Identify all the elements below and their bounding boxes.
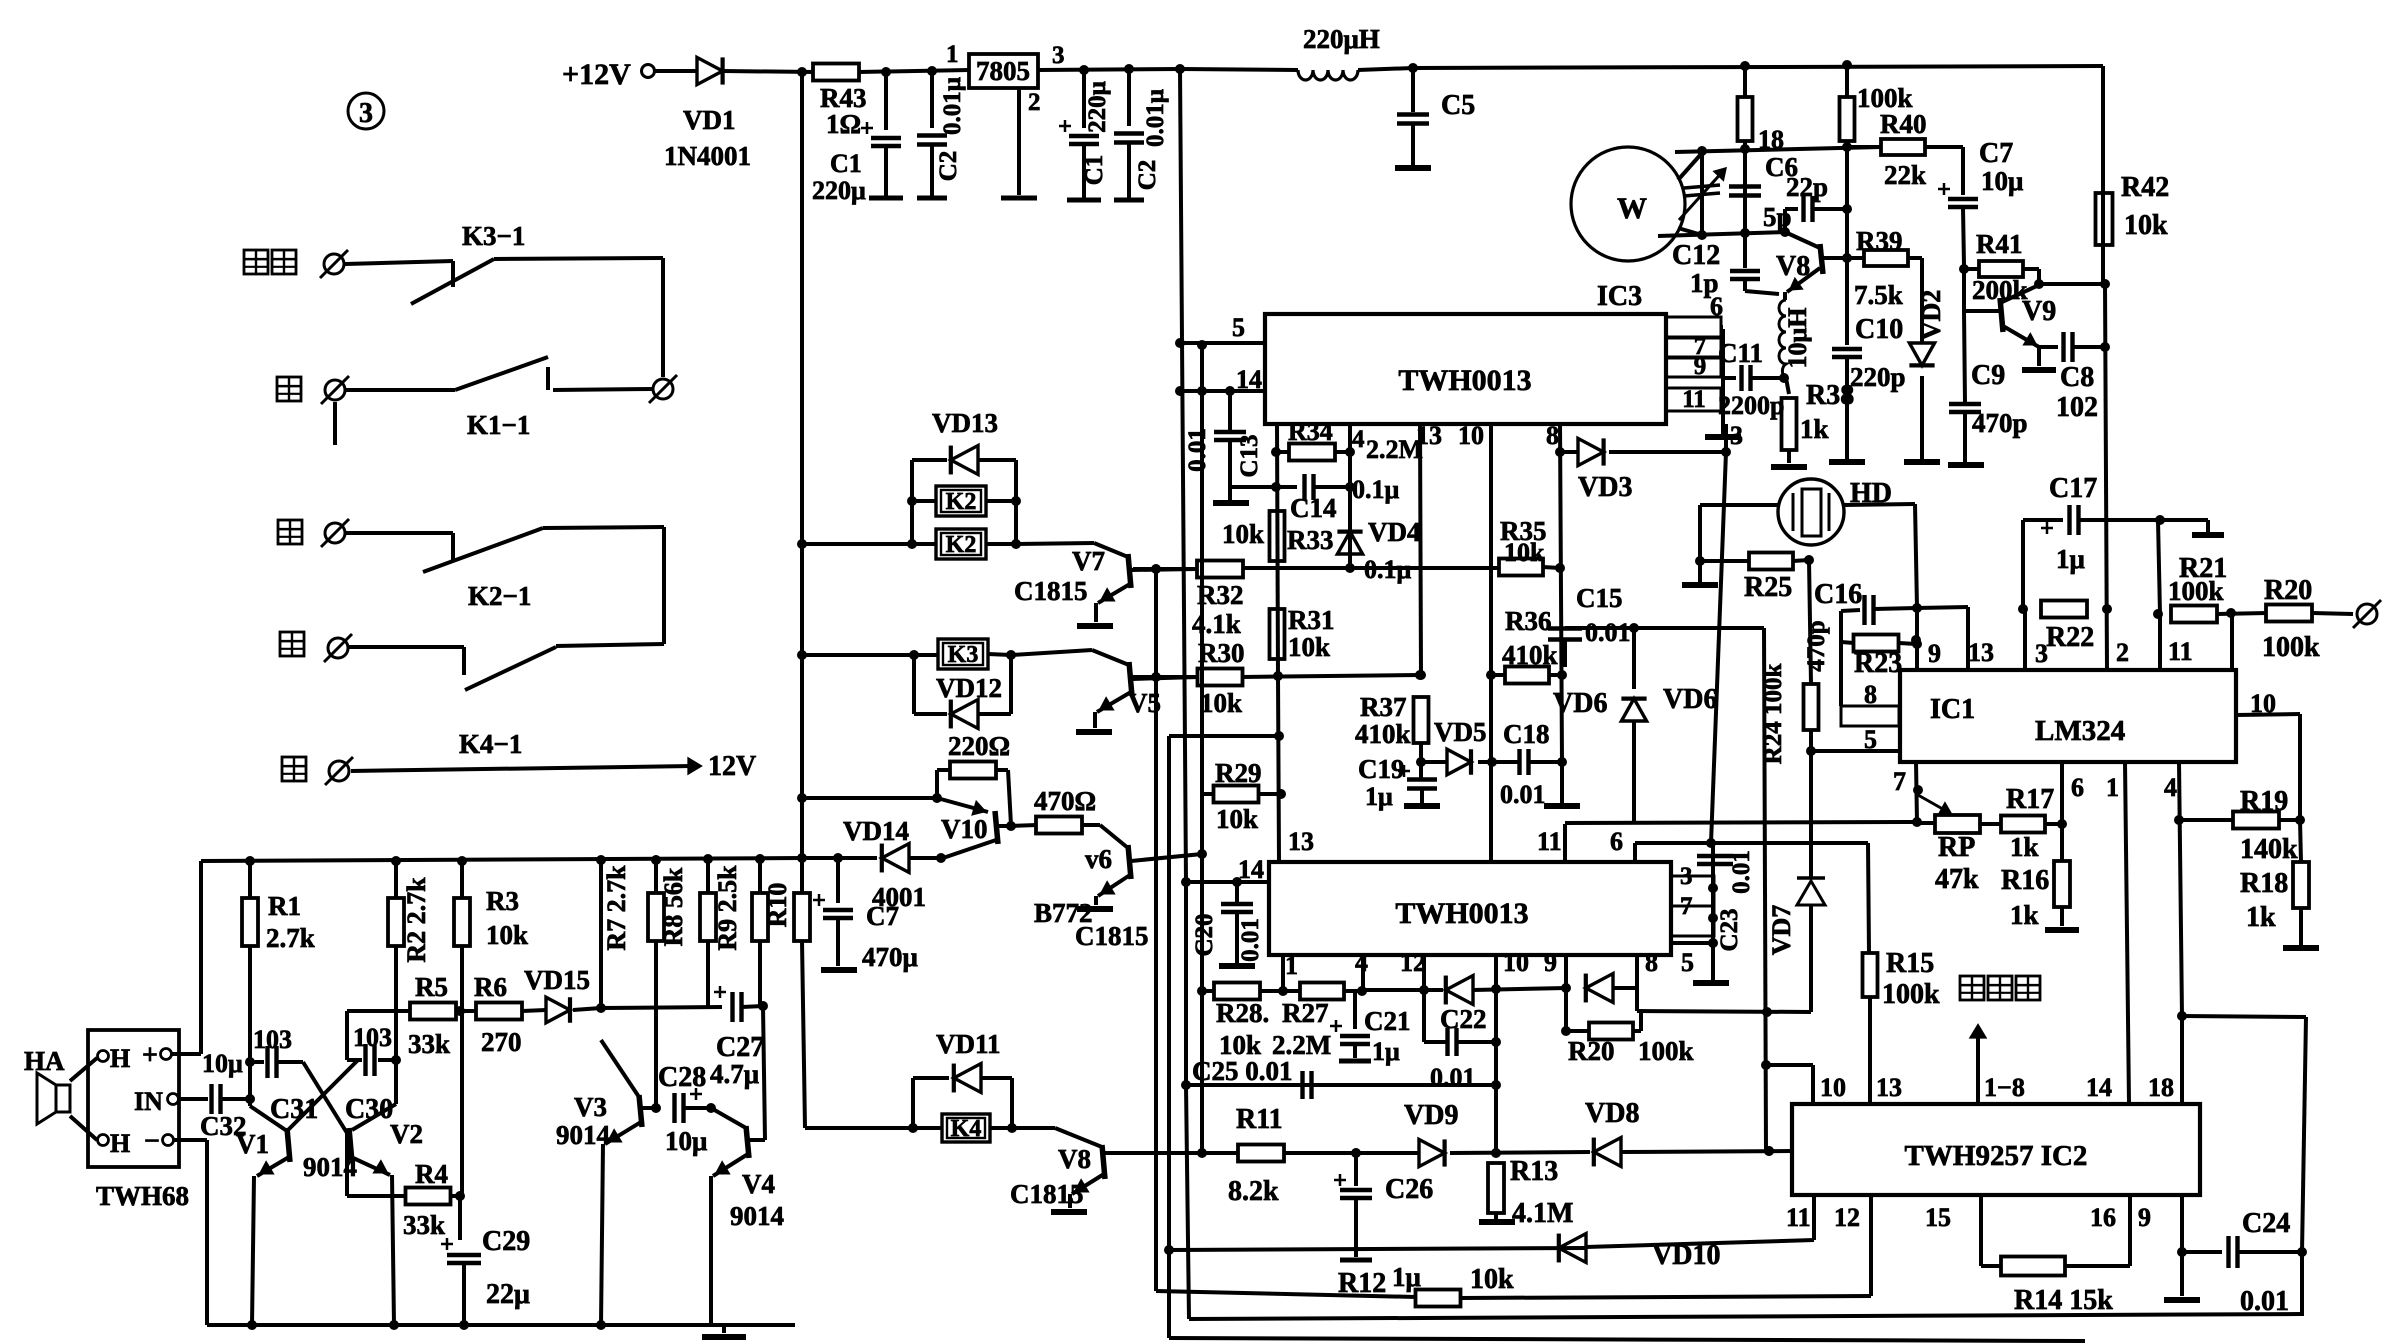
wire R31 column to IC2 pin13 [1278,676,1279,862]
wire v6 base node down [1200,854,1204,991]
svg-text:100k: 100k [2168,576,2224,606]
terminal red [329,761,349,781]
svg-text:R6: R6 [474,972,507,1002]
resistor 470 ohm [1036,817,1082,834]
svg-text:V8: V8 [1776,251,1810,282]
capacitor C20 0.01 [1235,882,1239,902]
resistor R19 140k [2233,812,2279,829]
resistor R16 1k [2060,762,2064,860]
svg-text:8: 8 [1546,421,1559,450]
wire K3-1 output down to black terminal [661,258,665,377]
label pink wire (CJK) [244,250,268,274]
wire C23 column pins 3 7 5 [1711,843,1715,980]
wire K4-1 red to 12V with arrow [351,766,692,771]
svg-text:R2 2.7k: R2 2.7k [402,877,431,963]
svg-text:10μ: 10μ [202,1049,243,1078]
svg-text:4.1M: 4.1M [1512,1198,1573,1229]
svg-text:10k: 10k [2124,210,2168,241]
ground C9 [1948,462,1984,468]
switch K1-1 [346,388,455,392]
resistor R33 10k [1270,511,1285,561]
svg-text:K1−1: K1−1 [467,410,530,440]
pin boxes IC2 3 7 [1671,876,1714,906]
capacitor C26 1u [1354,1153,1358,1186]
svg-text:C29: C29 [482,1226,530,1257]
wire IC2 pin 6 [1633,843,1637,862]
capacitor C14 0.1u [1230,485,1297,489]
svg-text:C21: C21 [1364,1006,1411,1036]
transistor v6 C1815 [1082,823,1100,827]
svg-text:C1815: C1815 [1010,1179,1084,1209]
svg-text:2.7k: 2.7k [266,923,315,953]
svg-text:VD4: VD4 [1368,517,1421,547]
svg-text:2.2M: 2.2M [1366,435,1423,464]
svg-text:3: 3 [1052,42,1065,69]
wire pin8 node to VD7 [1637,1011,1811,1012]
svg-text:33k: 33k [408,1029,450,1059]
svg-text:10k: 10k [1222,519,1264,549]
ground IC3 pins [1705,434,1741,440]
wire R3 column down [460,945,464,1196]
svg-text:10k: 10k [1504,538,1545,567]
capacitor C2 0.01u (output) [1127,69,1131,126]
svg-text:HA: HA [24,1046,65,1076]
svg-text:C25 0.01: C25 0.01 [1192,1056,1293,1086]
svg-text:8.2k: 8.2k [1228,1176,1279,1207]
wire bus to K3 [802,653,938,657]
svg-text:9: 9 [1694,353,1707,380]
svg-text:16: 16 [2090,1203,2116,1232]
svg-text:R17: R17 [2006,784,2054,815]
svg-text:22k: 22k [1884,160,1926,190]
capacitor C29 22u [441,1243,453,1246]
diode VD9 [1419,1139,1445,1166]
wire VD10 to IC2 pin11 [1586,1240,1814,1247]
capacitor C9 470p [1949,402,1981,406]
svg-text:R32: R32 [1197,580,1244,610]
wire IC2 pin 4 riser [1361,955,1365,991]
terminal +12V [642,65,655,78]
svg-text:IC3: IC3 [1597,281,1642,312]
wire oscillator ground rail [207,1323,795,1327]
capacitor C8 102 [2039,345,2058,349]
terminal pink [324,254,344,274]
wire top supply rail to right side [1358,68,1413,70]
wire TWH68 minus to bottom rail [174,1138,207,1142]
wire pin6 down through R15 to TWH9257 pin13 [1868,843,1869,953]
svg-text:13: 13 [1876,1073,1902,1102]
svg-text:C1: C1 [830,149,862,178]
resistor R39 7.5k [1847,256,1864,260]
svg-text:10μ: 10μ [1981,166,2023,196]
diode at IC2 pin 9 [1586,974,1613,1003]
svg-text:6: 6 [1610,827,1623,856]
svg-text:140k: 140k [2240,834,2298,865]
svg-text:C7: C7 [1979,138,2013,169]
wire R11 to VD9 [1284,1151,1419,1155]
svg-text:3: 3 [359,98,373,129]
ground VD2 [1904,459,1940,465]
svg-text:0.01: 0.01 [2240,1286,2289,1317]
svg-text:15: 15 [1925,1203,1951,1232]
svg-text:R10: R10 [763,883,792,928]
svg-text:R23: R23 [1854,648,1902,679]
resistor R36 410k [1505,667,1549,684]
svg-text:12V: 12V [708,751,756,782]
svg-text:8: 8 [1645,948,1658,977]
transistor V8 (rf oscillator) [1820,244,1823,274]
svg-text:1N4001: 1N4001 [664,141,751,171]
figure number 3 circle [348,93,384,129]
svg-text:8: 8 [1864,680,1877,709]
wire TWH9257 pin 18 riser [2180,1016,2184,1104]
diode VD14 4001 [802,856,877,860]
svg-text:V8: V8 [1058,1144,1091,1174]
svg-text:0.01μ: 0.01μ [1142,89,1169,147]
relay coil K4 [942,1114,990,1142]
svg-text:C24: C24 [2242,1208,2290,1239]
diode VD3 [1560,450,1578,454]
resistor R30 10k [1133,675,1198,679]
svg-text:C2: C2 [1134,160,1161,191]
ground C23 [1693,980,1729,986]
svg-text:K2−1: K2−1 [468,581,531,611]
svg-text:C10: C10 [1855,314,1903,345]
capacitor C31 103 [250,1060,264,1064]
wire trunk x1169 [1167,736,1171,1338]
resistor R15 100k password line [1863,953,1878,997]
svg-text:1p: 1p [1690,268,1719,298]
transistor V8 C1815 (driver) [1012,1126,1055,1130]
svg-text:R36: R36 [1505,606,1552,636]
svg-text:100k: 100k [1882,979,1940,1010]
regulator U 7805 [969,54,1038,88]
svg-text:V7: V7 [1072,546,1105,576]
ground 7805 pin2 [1017,88,1021,195]
svg-text:R5: R5 [415,972,448,1002]
svg-text:C26: C26 [1385,1174,1433,1205]
svg-text:C23: C23 [1716,908,1743,951]
svg-text:4.7μ: 4.7μ [710,1059,759,1089]
svg-text:1μ: 1μ [2056,544,2085,574]
svg-text:C11: C11 [1718,338,1763,368]
svg-text:220μ: 220μ [812,176,866,205]
svg-text:C12: C12 [1672,240,1720,271]
wire IC3 pin1 column [1277,424,1278,676]
svg-text:7: 7 [1680,893,1693,920]
svg-text:C5: C5 [1441,90,1475,121]
ground R18 [2283,945,2319,951]
resistor R27 2.2M [1300,983,1344,1000]
svg-text:10k: 10k [486,920,528,950]
svg-text:10k: 10k [1200,688,1242,718]
wire pin4 node to C24 right [2182,1016,2306,1017]
svg-text:5: 5 [1681,948,1694,977]
svg-text:−: − [144,1126,160,1157]
svg-text:R40: R40 [1880,109,1927,139]
svg-text:R3: R3 [486,886,519,916]
wire V7 base to R32 [1133,567,1197,571]
wire IC2 pin 1 riser [1281,955,1285,991]
svg-text:1k: 1k [2246,902,2276,933]
decoder IC2 TWH9257 [1792,1104,2200,1195]
terminal common (right) [653,379,673,399]
ground R38 [1771,464,1807,470]
svg-text:33k: 33k [403,1210,445,1240]
transistor V10 B772 [937,798,988,812]
svg-text:+: + [142,1040,158,1071]
resistor R4 33k [345,1133,349,1196]
resistor R18 1k [2300,820,2301,862]
svg-text:1: 1 [1285,951,1298,980]
svg-text:220μH: 220μH [1303,24,1380,54]
svg-text:R11: R11 [1236,1104,1283,1135]
terminal black [325,380,345,400]
ground C10 [1829,459,1865,465]
transistor V7 C1815 [1016,543,1094,544]
diode VD15 [546,997,570,1023]
svg-text:R16: R16 [2001,865,2049,896]
svg-text:22p: 22p [1786,172,1828,202]
svg-text:K3−1: K3−1 [462,221,525,251]
svg-text:0.01: 0.01 [1728,850,1755,894]
terminal blue [325,523,345,543]
svg-text:VD11: VD11 [936,1029,1001,1059]
wire TWH9257 pin 9 riser [2180,1195,2184,1252]
svg-text:R42: R42 [2121,172,2169,203]
svg-text:TWH0013: TWH0013 [1398,364,1531,397]
diode VD6 [1632,628,1636,689]
wire VD1 to R43, junction at +12V bus [723,71,814,72]
svg-text:TWH0013: TWH0013 [1395,897,1528,930]
capacitor C21 1u [1353,991,1357,1029]
capacitor C7 470u [836,858,840,903]
wire bus bottom to K4 [802,941,805,1128]
svg-text:2: 2 [1028,89,1041,116]
svg-text:R41: R41 [1976,229,2023,259]
svg-text:R39: R39 [1856,226,1903,256]
resistor R29 10k [1202,792,1214,796]
svg-text:1Ω: 1Ω [826,109,861,139]
svg-text:K2: K2 [946,532,977,558]
potentiometer RP 47k [1918,795,1948,812]
svg-text:VD2: VD2 [1917,290,1946,341]
svg-text:VD3: VD3 [1578,472,1632,503]
svg-text:C1815: C1815 [1014,576,1088,606]
svg-text:7: 7 [1893,767,1906,796]
svg-text:+12V: +12V [562,58,631,91]
svg-text:V3: V3 [574,1092,607,1122]
svg-text:K3: K3 [948,642,979,668]
resistor R20 100k (lower) [1564,988,1568,1031]
wire pin11 to RP [1565,822,1917,823]
wire IC3 pin8 column [1560,424,1562,762]
wire R9 down [758,941,762,1006]
wire R8 down [706,941,710,1007]
svg-text:10μ: 10μ [665,1126,707,1156]
ground R13 [1479,1219,1515,1225]
wire trunk x1766 [1764,628,1766,1151]
resistor R35 10k [1499,559,1543,576]
svg-text:220p: 220p [1850,362,1906,392]
svg-text:R24 100k: R24 100k [1760,664,1787,765]
label brown wire (CJK) [280,632,304,656]
wire IC2 pin 14 [1186,880,1269,884]
transistor V9 [1964,309,2000,313]
svg-text:R8 56k: R8 56k [659,867,688,946]
diode VD13 [912,458,947,462]
svg-text:18: 18 [2148,1073,2174,1102]
resistor R5 33k [347,1009,409,1013]
wire LM324 pin 4 down [2179,762,2182,1016]
svg-text:H: H [110,1129,130,1158]
transistor V5 [1011,650,1092,655]
label black wire (CJK) [277,377,301,401]
capacitor C1 220u (output) [1082,70,1086,128]
wire R12 to IC2 pin12 [1460,1296,1871,1298]
svg-text:V2: V2 [390,1119,423,1149]
svg-text:1k: 1k [1800,414,1829,444]
transistor V4 9014 [711,1108,746,1128]
wire pins 1-8 password arrow [1976,1032,1980,1104]
capacitor C2 0.01u (input) [930,71,934,128]
svg-text:C17: C17 [2049,473,2097,504]
ground V5 emitter [1076,729,1112,735]
svg-text:0.01: 0.01 [1237,918,1264,962]
wire IC3 pin4 column [1348,424,1352,568]
ground V8 emitter [1051,1209,1087,1215]
wire IC3 pin10 column [1489,424,1493,862]
wire IC3 pin13 column [1420,424,1421,675]
ground V9 emitter [2022,367,2056,373]
capacitor C11 2200p [1723,376,1736,380]
svg-text:10μH: 10μH [1783,308,1812,369]
wire C15 node to right trunk [1565,626,1764,630]
label red wire (CJK) [282,757,306,781]
wire trunk x1156 to R12 [1154,569,1158,1291]
svg-text:W: W [1617,192,1647,225]
resistor R41 200k [1959,264,1969,274]
resistor R6 270 [476,1003,522,1020]
wire IC2 pin 8 riser [1635,955,1639,1011]
svg-text:TWH9257 IC2: TWH9257 IC2 [1905,1140,2088,1172]
svg-text:410k: 410k [1355,719,1411,749]
wire C24 right down to bottom line [2300,1252,2304,1316]
svg-text:470p: 470p [1803,620,1830,671]
relay coil K2 (upper) [936,486,986,516]
svg-text:v6: v6 [1085,844,1112,874]
svg-text:R9 2.5k: R9 2.5k [713,865,742,951]
svg-text:9: 9 [1544,948,1557,977]
svg-text:R20: R20 [2264,575,2312,606]
svg-text:C16: C16 [1814,579,1862,610]
wire +12V vertical bus [800,72,804,858]
capacitor C24 0.01 [2182,1250,2222,1254]
svg-text:R7 2.7k: R7 2.7k [602,865,631,951]
svg-text:12: 12 [1834,1203,1860,1232]
svg-text:H: H [110,1044,130,1073]
svg-text:0.01: 0.01 [1430,1063,1476,1092]
diode VD5 [1421,760,1447,764]
svg-text:0.01: 0.01 [1500,780,1546,809]
svg-text:K2: K2 [946,489,977,515]
svg-text:11: 11 [1786,1203,1811,1232]
svg-text:100k: 100k [2262,632,2320,663]
wire R43 to 7805 pin1, junctions [859,70,969,72]
transistor V3 9014 [601,1040,639,1097]
svg-text:C13: C13 [1236,434,1263,477]
wire LM324 pin 1 to TWH9257 pin 14 [2125,762,2129,1104]
diode VD11 [913,1076,949,1080]
svg-text:5p: 5p [1763,202,1792,232]
svg-text:R28.: R28. [1216,998,1269,1028]
svg-text:1: 1 [2106,773,2119,802]
svg-text:5: 5 [1232,313,1245,342]
svg-text:VD1: VD1 [683,105,736,135]
svg-text:R19: R19 [2240,786,2288,817]
svg-text:10k: 10k [1216,804,1258,834]
svg-text:R30: R30 [1198,638,1245,668]
diode VD12 [914,712,947,716]
svg-text:1: 1 [946,41,959,68]
diode VD4 zener [1337,532,1362,554]
svg-text:10: 10 [1503,948,1529,977]
capacitor C25 0.01 [1186,1083,1496,1087]
svg-text:4.1k: 4.1k [1192,609,1241,639]
resistor R32 4.1k [1197,561,1243,578]
wire IC2 pin 10 riser [1494,955,1498,1153]
wire 7805 pin3 +5V rail [1038,69,1180,70]
svg-text:5: 5 [1864,725,1877,754]
svg-text:V10: V10 [941,814,988,844]
wire TWH9257 pin 10 [1766,1063,1813,1067]
svg-text:VD8: VD8 [1585,1098,1639,1129]
svg-text:C19: C19 [1358,754,1405,784]
capacitor C23 0.01 [1697,854,1733,858]
svg-text:VD12: VD12 [936,673,1002,703]
wire R32 to R35 [1243,566,1500,570]
svg-text:VD5: VD5 [1434,717,1487,747]
svg-text:K4: K4 [951,1116,982,1142]
terminal brown [328,638,348,658]
wire V2 collector node [394,945,398,1104]
wire bus to V10 emitter [802,796,937,800]
svg-text:R31: R31 [1288,605,1335,635]
ground pin 9 [2164,1297,2200,1303]
svg-text:470μ: 470μ [862,942,918,972]
svg-text:102: 102 [2056,392,2098,423]
svg-text:14: 14 [1238,855,1264,884]
svg-text:VD14: VD14 [843,816,909,846]
svg-text:10k: 10k [1470,1264,1514,1295]
svg-text:C9: C9 [1971,360,2005,391]
wire bus to K2 [802,542,912,546]
svg-text:C22: C22 [1440,1004,1487,1034]
capacitor C18 0.01 [1517,749,1521,775]
svg-text:V1: V1 [236,1129,269,1159]
ground C7 [821,967,857,973]
svg-text:100k: 100k [1638,1036,1694,1066]
svg-text:R27: R27 [1282,998,1329,1028]
svg-text:R22: R22 [2046,622,2094,653]
svg-text:C14: C14 [1290,493,1337,523]
svg-text:14: 14 [2086,1073,2112,1102]
svg-text:LM324: LM324 [2035,715,2125,747]
svg-text:4: 4 [2164,773,2177,802]
diode VD1 1N4001 [697,57,723,84]
capacitor C22 0.01 [1422,990,1426,1042]
svg-text:11: 11 [2168,637,2193,666]
